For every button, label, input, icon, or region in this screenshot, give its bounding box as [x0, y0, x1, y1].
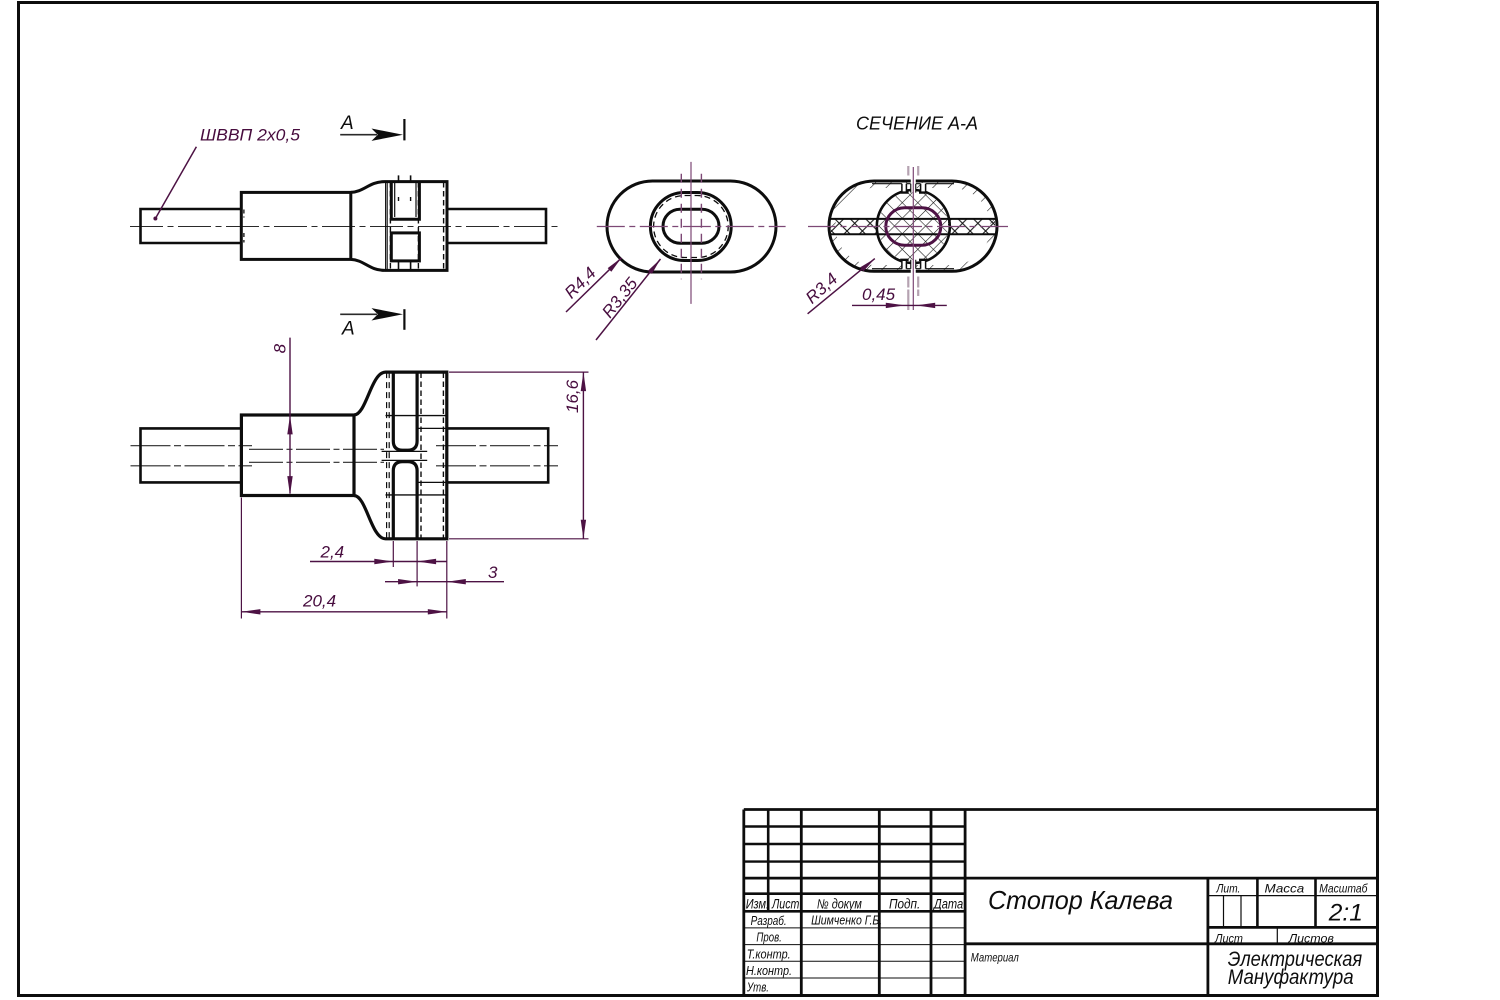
front view dashed slot line right [700, 174, 702, 279]
front view outer obround [607, 181, 776, 272]
plan web line lower [382, 459, 428, 461]
svg-text:Изм.: Изм. [746, 897, 769, 912]
svg-text:Т.контр.: Т.контр. [747, 946, 791, 961]
top recess walls [902, 184, 926, 192]
plan hidden line right of slot [420, 373, 422, 539]
cable designation label ШВВП 2x0,5 [153, 126, 300, 221]
radius dimension R3,4 [802, 259, 875, 314]
dimension 0,45 [852, 285, 947, 308]
svg-text:Лит.: Лит. [1216, 882, 1241, 896]
dimension 16,6 [449, 372, 589, 539]
radius dimension R4,4 [561, 258, 622, 312]
svg-text:16,6: 16,6 [563, 379, 582, 413]
centerline of side view [130, 226, 560, 228]
svg-text:Мануфактура: Мануфактура [1228, 966, 1354, 989]
head outline [385, 182, 448, 271]
svg-text:Н.контр.: Н.контр. [746, 963, 792, 978]
body hole line lower [249, 461, 384, 463]
dimension 2,4 [310, 541, 447, 586]
hidden line left of slot [389, 182, 391, 270]
section outer obround [829, 181, 997, 271]
section horizontal centerline [808, 226, 1008, 228]
column line №докум/Подп [878, 810, 881, 996]
svg-text:Разраб.: Разраб. [751, 913, 787, 928]
dimension 8 [271, 338, 293, 496]
cable cross-section obround (purple) [886, 208, 941, 245]
column line Подп/Дата [930, 810, 933, 996]
head left parting thin lines [386, 182, 388, 271]
upper slot pins above head [399, 175, 411, 181]
upper revision row line 3 [744, 860, 965, 862]
svg-text:Лист: Лист [1214, 931, 1243, 945]
lavender slot edge lines [908, 166, 918, 310]
staff row line Н.контр [744, 977, 965, 979]
svg-text:Подп.: Подп. [889, 897, 920, 912]
column line Изм/Лист [767, 810, 770, 912]
plan head outline [386, 372, 447, 539]
plan left cable [141, 428, 242, 482]
staff row line Т.контр [744, 960, 965, 962]
radius dimension R3,35 [596, 259, 661, 340]
plan upper slot U [393, 372, 417, 450]
front view dashed slot line left [680, 174, 682, 279]
section arrow A top [340, 113, 404, 141]
upper slot walls [391, 182, 419, 220]
upper slot inner thin walls [395, 182, 416, 217]
column line Лист/№докум [800, 810, 803, 996]
dimension 20,4 [241, 498, 446, 619]
section inner bottom face line [872, 268, 954, 270]
plan transition curve bottom [354, 496, 386, 539]
title block left edge [742, 810, 745, 996]
plan body bottom edge through head [386, 494, 447, 496]
svg-text:2:1: 2:1 [1328, 900, 1363, 927]
slot slit white cutouts [902, 179, 926, 273]
svg-text:8: 8 [271, 343, 290, 353]
plan hidden line near head right edge [442, 373, 444, 539]
hidden line right of slot [417, 182, 419, 270]
front view middle obround [650, 193, 731, 261]
header row top line [744, 892, 965, 895]
plan right cable [447, 428, 548, 482]
svg-text:№ докум: № докум [817, 897, 862, 912]
header row bottom line [744, 910, 965, 913]
lower slot bottom thin walls [399, 261, 411, 271]
core centerline upper [131, 445, 559, 447]
top ledge bars [900, 191, 927, 193]
svg-text:Шимченко Г.Б.: Шимченко Г.Б. [811, 914, 882, 928]
bottom slit edges [911, 260, 916, 269]
svg-text:A: A [341, 319, 355, 340]
full-width separator row line [744, 877, 1378, 880]
Лит subcell line 2 [1240, 896, 1242, 928]
plan body [241, 415, 354, 496]
title block outer top edge [744, 808, 1378, 811]
name/right section divider [1207, 878, 1210, 995]
plan web line upper [382, 450, 428, 452]
section channel hatching right [948, 220, 995, 234]
Лит/Масса divider [1256, 878, 1259, 927]
svg-text:Стопор Калева: Стопор Калева [988, 885, 1173, 915]
svg-text:Лист: Лист [771, 897, 799, 912]
core centerline lower [131, 465, 559, 467]
Лист row top line [1208, 926, 1378, 929]
svg-text:Масштаб: Масштаб [1319, 882, 1368, 896]
front view vertical centerline [690, 162, 692, 304]
svg-text:0,45: 0,45 [862, 285, 896, 304]
svg-text:Материал: Материал [971, 951, 1019, 965]
svg-text:Дата: Дата [932, 897, 963, 912]
section channel hatching left [831, 220, 878, 234]
Масса/Масштаб divider [1314, 878, 1317, 927]
transition curve top [351, 182, 385, 193]
left cable [141, 209, 242, 243]
svg-text:Масса: Масса [1265, 882, 1305, 896]
body hole line upper [249, 448, 384, 450]
svg-text:Листов: Листов [1288, 931, 1334, 945]
body of stopper [241, 192, 350, 259]
right cable [447, 209, 546, 243]
lower slot walls [391, 233, 419, 261]
section circle hatching [878, 192, 948, 262]
plan cable edges through head [417, 428, 447, 482]
staff row line Пров [744, 944, 965, 946]
transition curve bottom [351, 259, 385, 270]
bottom ledge bars [900, 259, 927, 261]
svg-text:A: A [340, 113, 354, 134]
svg-text:ШВВП 2х0,5: ШВВП 2х0,5 [200, 126, 301, 145]
Лит header underline [1208, 895, 1378, 897]
upper revision row line 1 [744, 825, 965, 827]
Лит subcell line 1 [1223, 896, 1225, 928]
plan body top edge through head [386, 415, 447, 417]
bottom recess walls [902, 261, 926, 269]
svg-text:2,4: 2,4 [320, 543, 345, 562]
upper revision row line 2 [744, 843, 965, 845]
plan transition curve top [354, 372, 386, 415]
svg-text:Пров.: Пров. [756, 930, 781, 945]
section channel bottom edge [830, 233, 997, 235]
Материал row top line [965, 942, 1377, 945]
section center boss circle [877, 190, 950, 263]
section channel top edge [830, 218, 997, 220]
top slit edges [911, 184, 916, 193]
left table right edge [964, 810, 967, 996]
plan lower slot U [393, 462, 417, 539]
front view horizontal centerline [597, 226, 786, 228]
hidden cable edge dashes in body [243, 210, 245, 243]
dimension 3 [385, 563, 504, 584]
svg-text:3: 3 [488, 563, 498, 582]
front view hidden dashed obround [654, 196, 729, 258]
svg-text:20,4: 20,4 [302, 592, 336, 611]
Лист/Листов divider [1276, 927, 1278, 943]
plan head left dashed parting lines [386, 372, 388, 539]
front view inner cable hole obround [663, 209, 719, 243]
svg-text:СЕЧЕНИЕ А-А: СЕЧЕНИЕ А-А [856, 114, 978, 134]
staff row line Разраб [744, 927, 965, 929]
upper slot hidden dashes [399, 197, 411, 204]
svg-text:Утв.: Утв. [746, 980, 769, 995]
section vertical centerline [912, 167, 914, 310]
section arrow A bottom [340, 308, 404, 340]
section inner top face line [872, 183, 954, 185]
section border band hatching [829, 181, 998, 272]
hidden line near head right edge [443, 182, 445, 270]
